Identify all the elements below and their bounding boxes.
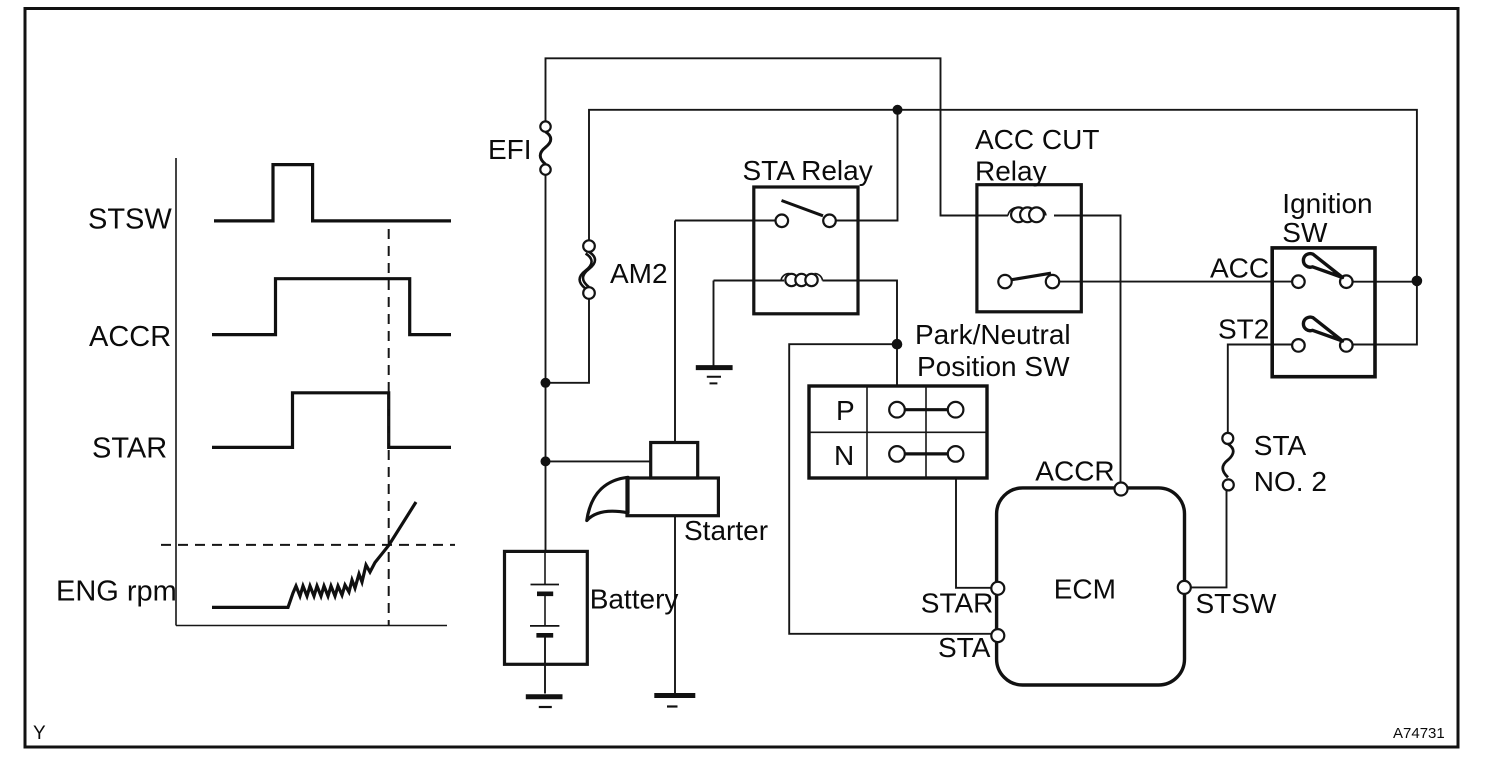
svg-text:ENG rpm: ENG rpm bbox=[56, 576, 177, 608]
svg-text:P: P bbox=[836, 395, 855, 426]
svg-text:STA Relay: STA Relay bbox=[743, 155, 873, 186]
svg-text:EFI: EFI bbox=[488, 134, 532, 165]
svg-text:ACCR: ACCR bbox=[89, 321, 171, 353]
svg-text:ECM: ECM bbox=[1054, 573, 1116, 604]
svg-text:SW: SW bbox=[1282, 217, 1328, 248]
svg-text:ST2: ST2 bbox=[1218, 314, 1269, 345]
svg-text:AM2: AM2 bbox=[610, 258, 668, 289]
svg-text:STSW: STSW bbox=[88, 204, 172, 236]
svg-text:Y: Y bbox=[33, 723, 46, 744]
svg-text:NO. 2: NO. 2 bbox=[1254, 466, 1327, 497]
svg-text:STAR: STAR bbox=[92, 432, 167, 464]
svg-text:STSW: STSW bbox=[1196, 588, 1277, 619]
svg-text:ACCR: ACCR bbox=[1035, 456, 1114, 487]
svg-text:Relay: Relay bbox=[975, 155, 1047, 186]
svg-text:Position SW: Position SW bbox=[917, 351, 1070, 382]
svg-text:STAR: STAR bbox=[921, 587, 994, 618]
svg-text:Ignition: Ignition bbox=[1282, 188, 1372, 219]
svg-text:STA: STA bbox=[938, 632, 991, 663]
svg-text:Park/Neutral: Park/Neutral bbox=[915, 319, 1071, 350]
svg-text:Starter: Starter bbox=[684, 515, 768, 546]
svg-text:STA: STA bbox=[1254, 430, 1307, 461]
svg-text:A74731: A74731 bbox=[1393, 725, 1445, 742]
svg-text:Battery: Battery bbox=[590, 584, 679, 615]
svg-text:ACC CUT: ACC CUT bbox=[975, 124, 1099, 155]
svg-text:ACC: ACC bbox=[1210, 253, 1269, 284]
svg-text:N: N bbox=[834, 440, 854, 471]
